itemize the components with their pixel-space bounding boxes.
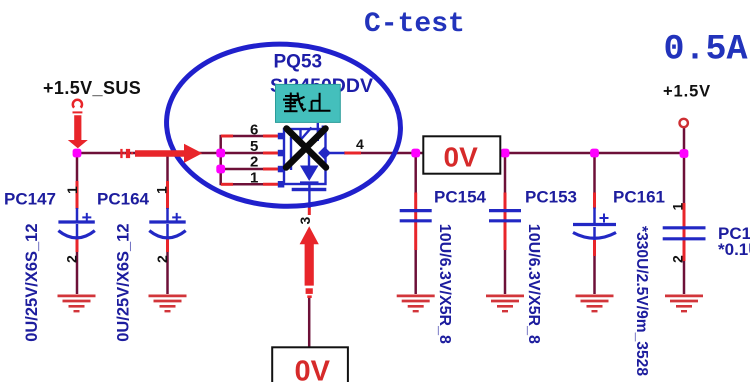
svg-text:0U/25V/X6S_12: 0U/25V/X6S_12 bbox=[115, 223, 133, 341]
svg-text:*330U/2.5V/9m_3528: *330U/2.5V/9m_3528 bbox=[633, 226, 650, 376]
svg-text:PC154: PC154 bbox=[434, 188, 487, 207]
svg-text:0V: 0V bbox=[444, 141, 479, 172]
svg-text:+1.5V_SUS: +1.5V_SUS bbox=[43, 78, 141, 98]
svg-text:1: 1 bbox=[250, 170, 258, 187]
svg-text:PC153: PC153 bbox=[525, 188, 577, 207]
svg-text:2: 2 bbox=[64, 255, 80, 263]
svg-text:C-test: C-test bbox=[364, 9, 465, 40]
svg-text:2: 2 bbox=[670, 255, 686, 263]
svg-text:PC161: PC161 bbox=[613, 188, 665, 207]
svg-text:PC164: PC164 bbox=[97, 190, 150, 209]
svg-text:2: 2 bbox=[154, 255, 170, 263]
svg-text:PQ53: PQ53 bbox=[274, 52, 323, 73]
svg-text:0V: 0V bbox=[295, 355, 331, 382]
svg-text:1: 1 bbox=[154, 186, 170, 194]
svg-text:4: 4 bbox=[356, 136, 364, 152]
svg-text:PC147: PC147 bbox=[4, 190, 56, 209]
svg-text:+1.5V: +1.5V bbox=[663, 83, 711, 101]
svg-text:1: 1 bbox=[64, 186, 80, 194]
svg-text:1: 1 bbox=[670, 203, 686, 211]
svg-text:3: 3 bbox=[297, 217, 313, 225]
svg-text:0U/25V/X6S_12: 0U/25V/X6S_12 bbox=[23, 223, 41, 341]
svg-text:2: 2 bbox=[250, 154, 258, 171]
svg-text:10U/6.3V/X5R_8: 10U/6.3V/X5R_8 bbox=[525, 224, 542, 344]
svg-text:6: 6 bbox=[250, 122, 258, 139]
svg-text:10U/6.3V/X5R_8: 10U/6.3V/X5R_8 bbox=[436, 224, 453, 344]
svg-text:5: 5 bbox=[250, 138, 258, 155]
svg-text:0.5A: 0.5A bbox=[664, 30, 748, 70]
svg-text:*0.1U: *0.1U bbox=[718, 240, 750, 259]
